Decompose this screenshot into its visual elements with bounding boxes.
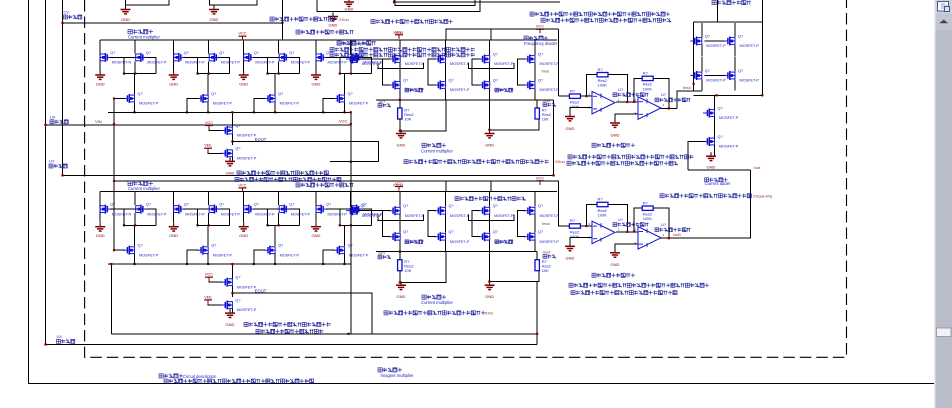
svg-text:GND: GND (566, 126, 575, 131)
svg-text:MOSFET-P: MOSFET-P (221, 61, 241, 65)
top eout junction eout (231, 140, 233, 142)
top multiplier wire pair2 mirror drop (208, 40, 210, 53)
top divider wire col1 drain (399, 40, 401, 55)
bottom opamp chain wire rin to opamp (580, 225, 592, 227)
top divider transistor Q col2 lower (434, 81, 446, 90)
bottom multiplier wire pair4 loop (340, 209, 372, 225)
top divider wire loop a (378, 63, 424, 69)
svg-text:GND: GND (169, 233, 178, 238)
svg-text:Q?: Q? (146, 203, 151, 207)
top multiplier junction pair1 gate (123, 73, 125, 75)
bottom multiplier junction pair4 gate (339, 224, 341, 226)
svg-text:MOSFET-P: MOSFET-P (405, 214, 425, 218)
svg-text:MOSFET-P: MOSFET-P (540, 88, 560, 92)
junction CV end (281, 22, 283, 24)
current adder transistor Q6 (703, 137, 715, 146)
svg-text:10K: 10K (542, 117, 549, 122)
bottom multiplier transistor Q10 (row2) (197, 246, 209, 255)
svg-text:MOSFET-P: MOSFET-P (450, 214, 470, 218)
svg-text:GND: GND (239, 82, 248, 87)
bottom eout wire vee to gate (208, 304, 223, 305)
bottom multiplier junction row2 gate input (113, 249, 115, 251)
svg-text:100K: 100K (598, 83, 608, 88)
bottom multiplier wire row2 gate tie (254, 250, 265, 264)
bottom multiplier wire row2 gate tie (187, 250, 198, 264)
svg-text:Q?: Q? (235, 298, 240, 302)
svg-text:10K: 10K (404, 117, 411, 122)
svg-text:GND: GND (329, 23, 338, 28)
bottom opamp chain resistor Rfb1 (597, 202, 608, 206)
bottom divider wire input drain (350, 192, 352, 207)
svg-text:Q?: Q? (211, 92, 216, 96)
bottom multiplier ground pair2 (169, 223, 179, 231)
wire top stub 5 (394, 0, 560, 2)
top eout transistor Q (lower) (221, 149, 233, 158)
top divloop resistor R2 (535, 108, 539, 119)
top multiplier wire pair3 mirror drop (278, 40, 280, 53)
bottom multiplier wire row2 source (207, 254, 209, 264)
bottom divider label sub 1 (405, 240, 423, 244)
svg-text:Q?: Q? (538, 230, 543, 234)
svg-text:Q?: Q? (146, 51, 151, 55)
wire adder source (734, 45, 736, 56)
svg-text:Q?: Q? (738, 69, 743, 73)
wire adder source (701, 45, 703, 56)
junction adder mid 1 (716, 94, 718, 96)
bottom opamp chain wire u1 plus (570, 237, 592, 246)
top divider wire col3 source drop (489, 89, 491, 100)
bottom opamp chain junction fb tap (585, 225, 587, 227)
ground (top strip 3b) (328, 13, 338, 21)
bottom divloop resistor R1 (398, 260, 402, 271)
top divider wire input drain (350, 40, 352, 55)
bottom multiplier wire pair1 loop (124, 209, 156, 225)
bottom multiplier power VCC (239, 188, 247, 192)
bottom multiplier wire row2 source (344, 254, 346, 264)
title bottom multiplier (128, 181, 153, 185)
bottom opamp chain ground U2 (610, 249, 620, 257)
bottom divider wire col2 mid (445, 215, 447, 233)
svg-text:MOSFET-P: MOSFET-P (255, 212, 275, 216)
bottom multiplier wire pair1 down (134, 213, 136, 225)
wire adder q6 source (714, 145, 716, 156)
bottom divider wire col1 source drop (399, 241, 401, 252)
top multiplier ground pair1 (95, 71, 105, 79)
input bus wire UX vertical (45, 0, 47, 345)
svg-text:Q?: Q? (138, 244, 143, 248)
bottom multiplier junction row2 source (274, 263, 276, 265)
top multiplier wire pair3 drain/source (243, 40, 245, 71)
svg-text:Q?: Q? (348, 92, 353, 96)
svg-text:Q?: Q? (138, 92, 143, 96)
top opamp chain junction stage (626, 101, 628, 103)
svg-text:Current multiplier: Current multiplier (128, 186, 160, 191)
annotation divider dense 1 (337, 41, 376, 45)
svg-text:Q?: Q? (493, 204, 498, 208)
bottom eout junction drain (231, 263, 233, 265)
svg-text:R?: R? (570, 218, 576, 223)
bottom eout junction eout (231, 292, 233, 294)
ground (top strip 1) (121, 6, 131, 14)
svg-text:Q?: Q? (403, 230, 408, 234)
top divider wire loop b (469, 63, 514, 69)
svg-text:GND: GND (210, 17, 219, 22)
wire adder source (701, 80, 703, 91)
annotation top 2 (371, 20, 453, 24)
wire top stub vertical (281, 0, 283, 40)
top opamp chain resistor Rfb1 (597, 73, 608, 77)
svg-text:MOSFET-P: MOSFET-P (221, 212, 241, 216)
top multiplier wire pair1 loop (124, 57, 156, 73)
wire adder drain (734, 23, 736, 37)
bottom divider wire col2 source drop (445, 241, 447, 252)
svg-text:Q?: Q? (718, 106, 723, 110)
top divider wire col3 drain (489, 40, 491, 55)
top multiplier junction pair4 loop (350, 73, 352, 75)
current adder transistor Q5 (703, 109, 715, 118)
svg-text:Current adder: Current adder (705, 181, 731, 186)
top multiplier wire pair1 gate link (110, 57, 156, 73)
svg-text:VCC: VCC (205, 121, 213, 125)
svg-text:VCC: VCC (536, 25, 544, 29)
svg-text:VCC: VCC (205, 273, 213, 277)
top multiplier wire drop to row2 (207, 74, 209, 95)
bottom multiplier wire row2 gate tie (323, 250, 334, 264)
wire adder right vertical (761, 0, 763, 95)
bottom opamp chain junction output (668, 237, 670, 239)
bottom opamp chain op-amp U2 (638, 227, 661, 250)
scrollbar (934, 0, 952, 408)
top multiplier junction pair4 gate (339, 73, 341, 75)
junction long vertical mid (350, 123, 352, 125)
wire adder top (694, 21, 763, 23)
title bottom center (378, 368, 402, 372)
top divloop wire r1 column (399, 100, 401, 108)
top divider wire col3 mid (489, 63, 491, 81)
top divider wire col2 gate (428, 59, 436, 85)
svg-text:MOSFET-P: MOSFET-P (450, 240, 470, 244)
svg-text:MOSFET-P: MOSFET-P (540, 62, 560, 66)
svg-text:UY: UY (49, 159, 55, 164)
top multiplier junction pair2 loop (208, 73, 210, 75)
bottom multiplier row2 bus wire (108, 263, 351, 265)
top divider transistor Q col3 lower (478, 81, 490, 90)
svg-text:Imul: Imul (542, 221, 550, 226)
bottom divider wire col4 mid (534, 215, 536, 233)
junction VIN-UX (44, 124, 46, 126)
bottom divider transistor Q col3 lower (478, 232, 490, 241)
svg-text:Q?: Q? (184, 203, 189, 207)
bottom multiplier transistor Q7 (316, 205, 328, 214)
annotation divider dense 3 (330, 53, 475, 57)
svg-text:XXnn: XXnn (555, 159, 565, 164)
top divider wire col2 drain (445, 40, 447, 55)
junction adder mid 2 (761, 94, 763, 96)
top divider power VCC 1 (395, 35, 403, 39)
bottom divider vcc rail drop (490, 181, 492, 192)
top divider transistor Q col2 upper (434, 55, 446, 64)
bottom multiplier wire pair3 gate link (254, 209, 300, 225)
wire long vertical x=350.8 (350, 112, 352, 333)
wire adder inner vertical from top (716, 0, 718, 22)
svg-text:MOSFET-P: MOSFET-P (185, 212, 205, 216)
annotation bottom opamp 2 (571, 291, 677, 295)
current adder transistor at 731.5,41 (724, 37, 736, 46)
bottom divider wire col3 gate (472, 211, 480, 237)
svg-text:Q?: Q? (219, 203, 224, 207)
bottom opamp chain wire input (559, 225, 570, 227)
svg-text:Imul: Imul (543, 251, 550, 255)
bottom opamp chain wire stage link (616, 231, 638, 233)
top multiplier wire row2 gate tie (254, 99, 265, 113)
bottom multiplier junction pair3 loop (278, 224, 280, 226)
bottom divider transistor Q col1 upper (389, 206, 401, 215)
top divider wire col3 gate (472, 59, 480, 85)
svg-text:Iad1: Iad1 (673, 232, 682, 237)
svg-text:Q?: Q? (289, 203, 294, 207)
wire adder mid bus (694, 94, 763, 96)
input bus wire CV/UY vertical (62, 0, 64, 176)
junction CV (61, 22, 63, 24)
svg-text:Circuit description: Circuit description (183, 374, 217, 379)
wire adder col links (701, 57, 703, 63)
top divider label sub 1 (405, 88, 423, 92)
bottom opamp chain wire feedback2 (634, 208, 669, 238)
annotation top opamp 2 (567, 161, 678, 165)
bottom divider wire gate bus (358, 210, 391, 212)
svg-text:R?: R? (570, 88, 576, 93)
svg-text:GND: GND (566, 256, 575, 261)
top multiplier wire pair3 loop (268, 57, 300, 73)
top multiplier ground pair2 (169, 71, 179, 79)
svg-text:XXnn: XXnn (339, 17, 349, 22)
junction UX lower (44, 343, 46, 345)
wire top stub 3 (317, 0, 480, 11)
wire adder drain (701, 23, 703, 37)
svg-text:Q?: Q? (718, 135, 723, 139)
top multiplier wire pair2 drain/source (173, 40, 175, 71)
svg-text:Q?: Q? (705, 69, 710, 73)
wire bottom block left drop (110, 264, 112, 334)
wire divider output drop (553, 100, 555, 176)
svg-text:MOSFET-P: MOSFET-P (291, 212, 311, 216)
bottom eout wire drain up (231, 264, 233, 279)
top multiplier transistor Q1 (100, 53, 112, 62)
top opamp chain wire feedback2 (634, 78, 669, 108)
svg-text:MOSFET-P: MOSFET-P (405, 62, 425, 66)
svg-text:MOSFET-N: MOSFET-N (112, 61, 132, 65)
top multiplier junction row2 source (207, 111, 209, 113)
svg-text:VIN: VIN (95, 119, 102, 124)
svg-text:Q?: Q? (211, 244, 216, 248)
top multiplier wire row2 gate tie (187, 99, 198, 113)
svg-text:Q?: Q? (538, 52, 543, 56)
svg-text:MOSFET-P: MOSFET-P (328, 212, 348, 216)
svg-text:UX: UX (50, 115, 56, 120)
top multiplier junction row2 source (133, 111, 135, 113)
top multiplier wire pair4 mirror drop (350, 40, 352, 53)
top multiplier transistor Q9 (row2) (123, 94, 135, 103)
bottom multiplier junction pair1 gate (123, 224, 125, 226)
bottom multiplier transistor Q6 (279, 205, 291, 214)
top opamp chain ground U2 (610, 119, 620, 127)
svg-text:CV: CV (64, 10, 70, 15)
bottom divider wire col1 mid (399, 215, 401, 233)
bottom multiplier junction row2 gate (186, 263, 188, 265)
bottom divloop wire top link (376, 251, 489, 253)
bottom multiplier wire pair2 mirror drop (208, 192, 210, 205)
svg-text:MOSFET-P: MOSFET-P (255, 61, 275, 65)
top divider transistor Q col3 upper (478, 55, 490, 64)
svg-text:Q?: Q? (235, 276, 240, 280)
svg-text:Iout: Iout (754, 165, 762, 170)
bottom multiplier wire pair4 down (350, 213, 352, 225)
svg-text:Q?: Q? (110, 203, 115, 207)
current adder transistor at 698.3,75.5 (690, 71, 702, 80)
svg-text:MOSFET-P: MOSFET-P (280, 102, 300, 106)
bottom multiplier wire pair1 mirror drop (134, 192, 136, 205)
svg-text:Q?: Q? (278, 92, 283, 96)
svg-text:GND: GND (226, 322, 235, 327)
bottom multiplier wire row2 source (274, 254, 276, 264)
svg-text:Q?: Q? (348, 244, 353, 248)
bottom multiplier transistor Q4 (209, 205, 221, 214)
top divloop wire top link (376, 99, 489, 101)
bottom multiplier wire pair3 mirror drop (278, 192, 280, 205)
bottom multiplier transistor Q2 (136, 205, 148, 214)
junction long vertical top (350, 111, 352, 113)
wire adder q5 source (714, 117, 716, 138)
top eout wire drain up (231, 112, 233, 127)
top divider power VCC 2 (536, 29, 544, 33)
top divloop wire loop2 (489, 100, 539, 130)
top divider transistor Q col1 upper (389, 55, 401, 64)
svg-text:GND: GND (485, 143, 494, 148)
bottom multiplier junction row2 source (133, 263, 135, 265)
top multiplier wire drop to row2 (274, 74, 276, 95)
svg-text:Imul: Imul (543, 99, 550, 103)
svg-text:GND: GND (312, 233, 321, 238)
top multiplier wire row2 source (134, 103, 136, 113)
top multiplier wire pair1 down (134, 61, 136, 73)
current adder transistor at 731.5,75.5 (724, 71, 736, 80)
annotation top multiplier right (296, 30, 354, 34)
bottom divider transistor Q col1 lower (389, 232, 401, 241)
bottom multiplier wire pair2 drain/source (173, 192, 175, 223)
top eout wire vcc to gate (209, 130, 223, 131)
bottom divider wire loop b (469, 215, 514, 221)
current adder transistor at 698.3,41 (690, 37, 702, 46)
bottom opamp chain wire output (661, 237, 677, 239)
top divloop junction loop2 (488, 129, 490, 131)
junction eout link (350, 161, 352, 163)
svg-text:Q?: Q? (110, 51, 115, 55)
top divloop wire loop1 (400, 100, 446, 131)
svg-text:Q?: Q? (326, 203, 331, 207)
svg-text:Q?: Q? (254, 203, 259, 207)
svg-text:MOSFET-P: MOSFET-P (719, 116, 739, 120)
top multiplier junction pair3 loop (278, 73, 280, 75)
bottom multiplier junction row2 gate (253, 263, 255, 265)
top multiplier wire pair2 gate link (184, 57, 230, 73)
wire bottom block bottom bus (111, 333, 537, 335)
svg-text:VCC: VCC (238, 183, 246, 187)
top multiplier wire row2 gate tie (323, 99, 334, 113)
svg-text:MOSFET-P: MOSFET-P (706, 44, 726, 48)
svg-text:MOSFET-P: MOSFET-P (719, 145, 739, 149)
bottom divider transistor Q col3 upper (478, 206, 490, 215)
wire adder left vertical (693, 22, 695, 91)
title top opamp chain (592, 143, 635, 147)
annotation bottom multiplier right (296, 183, 354, 187)
annotation mid 2 (235, 177, 341, 181)
top multiplier bus wire (100, 39, 383, 41)
top opamp chain resistor Rin (569, 94, 580, 98)
top divider wire col4 gate (518, 59, 526, 85)
svg-text:VCC: VCC (395, 30, 403, 34)
junction bottom left drop (110, 263, 112, 265)
bottom eout transistor Q (lower) (221, 301, 233, 310)
svg-text:MOSFET-N: MOSFET-N (112, 212, 132, 216)
svg-text:Q?: Q? (403, 204, 408, 208)
annotation bottom divider (455, 197, 526, 201)
annotation bottom 2 (256, 329, 323, 333)
top eout junction drain (231, 111, 233, 113)
svg-text:MOSFET-P: MOSFET-P (280, 253, 300, 257)
top multiplier junction row2 gate (322, 111, 324, 113)
svg-text:Q?: Q? (449, 78, 454, 82)
junction adder left (693, 83, 695, 85)
svg-text:GND: GND (345, 7, 354, 12)
bottom divider vcc rail (446, 181, 559, 192)
top multiplier wire pair4 loop (340, 57, 372, 73)
top multiplier junction row2 gate (253, 111, 255, 113)
bottom multiplier wire pair2 gate link (184, 209, 230, 225)
annotation under bottom divloop (384, 311, 485, 315)
top multiplier junction row2 source (343, 111, 345, 113)
bottom eout ground (225, 309, 235, 317)
bottom multiplier wire pair1 gate link (110, 209, 156, 225)
top multiplier junction pair2 gate (196, 73, 198, 75)
bottom multiplier transistor Q12 (row2) (333, 246, 345, 255)
top divider wire col4 drain (534, 40, 536, 55)
annotation right mid (660, 194, 751, 198)
top multiplier wire pair4 down (350, 61, 352, 73)
svg-text:MOSFET-P: MOSFET-P (237, 308, 257, 312)
svg-text:GND: GND (397, 143, 406, 148)
svg-text:Q?: Q? (235, 147, 240, 151)
bottom divloop ground R1 (396, 281, 406, 289)
top divider transistor Q col1 lower (389, 81, 401, 90)
svg-text:Q?: Q? (289, 51, 294, 55)
bottom multiplier transistor Q5 (244, 205, 256, 214)
bottom multiplier wire drop to row2 (207, 225, 209, 246)
svg-text:Imagnet multiplier: Imagnet multiplier (380, 373, 414, 378)
svg-text:MOSFET-P: MOSFET-P (349, 253, 369, 257)
bottom divider wire col1 drain (399, 192, 401, 207)
top divider wire gate bus (358, 58, 391, 60)
wire UY horizontal (63, 174, 554, 176)
bottom multiplier wire pair2 down (208, 213, 210, 225)
annotation divider dense 2 (330, 48, 475, 52)
bottom multiplier transistor Q3 (174, 205, 186, 214)
svg-text:XX(ad-4m): XX(ad-4m) (753, 194, 773, 199)
top divider wire col4 source drop (534, 89, 536, 100)
bottom opamp chain wire u2 plus (615, 244, 638, 252)
title current adder (705, 178, 728, 182)
top multiplier junction pair3 gate (266, 73, 268, 75)
wire top stub box 1 (126, 0, 169, 5)
